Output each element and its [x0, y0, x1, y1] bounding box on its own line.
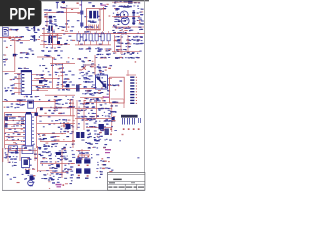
svg-text:PDF: PDF — [9, 6, 35, 24]
